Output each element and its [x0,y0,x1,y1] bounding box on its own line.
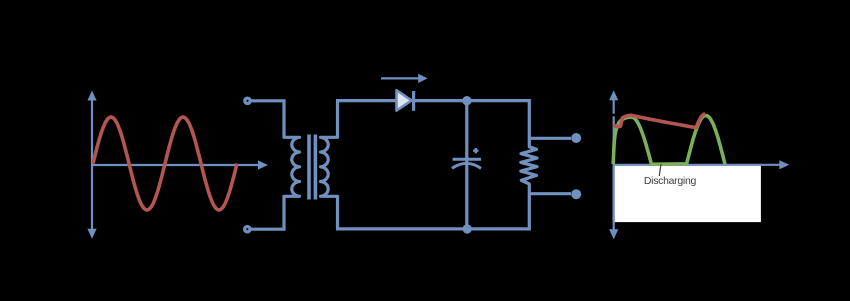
output terminal top [571,133,581,143]
wire capacitor branch [465,101,468,229]
wire top rail [336,99,529,102]
wire from top input terminal to primary [252,99,286,102]
node junction top (capacitor tap) [462,96,471,105]
output waveform vertical axis [609,90,618,239]
output terminal bottom [571,189,581,199]
current direction arrow [381,74,428,83]
axis tick mark [611,114,616,117]
smoothed capacitor output (red) [614,114,706,128]
input AC sine wave [93,117,237,210]
svg-text:Discharging: Discharging [644,175,697,187]
wire bottom rail [336,227,529,230]
wire from bottom input terminal to primary [251,228,285,231]
node junction bottom [463,224,472,233]
resistor R1 load [521,99,537,231]
rectified output waveform (green) [613,116,725,165]
diode D1 [397,90,414,111]
wire output bottom [529,192,571,195]
input terminal bottom [245,227,250,232]
input waveform horizontal axis [92,160,268,169]
white annotation panel [613,166,761,223]
capacitor C1 [452,148,481,168]
transformer T1 core [309,135,315,200]
output waveform horizontal axis [614,160,790,169]
transformer T1 secondary winding [321,101,338,229]
input waveform vertical axis [87,91,96,239]
transformer T1 primary winding [284,101,300,229]
input terminal top [245,98,250,103]
leader line [659,164,661,176]
wire output top [529,137,571,140]
